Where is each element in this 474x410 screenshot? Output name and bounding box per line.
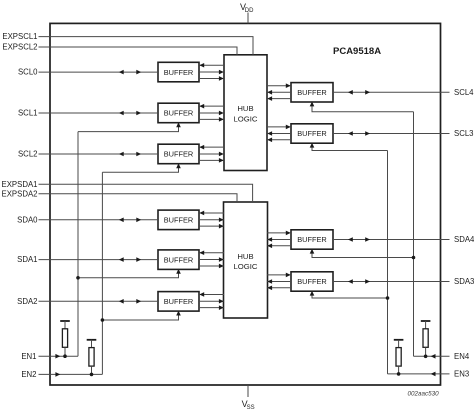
hub logic U2 (SDA) bbox=[224, 202, 268, 318]
svg-text:EN1: EN1 bbox=[21, 352, 36, 361]
buffer SDA2 (left) bbox=[158, 292, 199, 312]
bidirectional arrows on SDA1 bus bbox=[119, 257, 124, 262]
buffer SCL3 (right) bbox=[291, 124, 333, 143]
wire SCL2 buffer enable bbox=[102, 164, 178, 172]
svg-text:BUFFER: BUFFER bbox=[297, 129, 327, 138]
wire SCL1 bus bbox=[39, 112, 159, 114]
svg-text:EXPSDA1: EXPSDA1 bbox=[2, 180, 38, 189]
svg-text:002aac530: 002aac530 bbox=[408, 390, 440, 397]
svg-text:LOGIC: LOGIC bbox=[234, 115, 258, 124]
node R2-EN2 junction bbox=[90, 373, 94, 377]
wires hub U to buffer SDA3 bbox=[267, 274, 291, 276]
bidirectional arrows on SCL1 bus bbox=[119, 111, 124, 116]
svg-text:HUB: HUB bbox=[237, 252, 253, 261]
wire EN4 riser bbox=[413, 112, 415, 357]
node R4-EN3 junction bbox=[397, 372, 401, 376]
svg-text:EN4: EN4 bbox=[454, 352, 470, 361]
buffer SCL0 (left) bbox=[158, 62, 199, 82]
wire SCL1 buffer enable bbox=[78, 123, 179, 132]
power VSS tick bbox=[247, 385, 249, 397]
wire EXPSDA2 bbox=[39, 194, 238, 202]
node R1-EN1 junction bbox=[63, 354, 67, 358]
svg-text:BUFFER: BUFFER bbox=[297, 88, 327, 97]
wires hub U to buffer SDA0 bbox=[199, 212, 224, 214]
wire SDA2 buffer enable bbox=[102, 311, 178, 320]
buffer SCL4 (right) bbox=[291, 83, 333, 102]
svg-text:EN3: EN3 bbox=[454, 370, 469, 379]
svg-text:SDA2: SDA2 bbox=[17, 297, 37, 306]
wire EN3 bbox=[388, 373, 450, 375]
wire EXPSCL2 bbox=[39, 47, 238, 55]
svg-text:HUB: HUB bbox=[237, 104, 253, 113]
wires hub U to buffer SCL0 bbox=[199, 64, 224, 66]
wire EN3 riser bbox=[387, 151, 389, 374]
svg-text:EXPSDA2: EXPSDA2 bbox=[2, 189, 38, 198]
bidirectional arrows on SDA4 bus bbox=[348, 237, 353, 242]
wires hub U to buffer SDA1 bbox=[199, 252, 224, 254]
svg-text:BUFFER: BUFFER bbox=[164, 150, 194, 159]
node EN2-SDA2 junction bbox=[101, 318, 105, 322]
wire EN4 bbox=[414, 355, 450, 357]
wires hub U to buffer SCL3 bbox=[267, 126, 291, 128]
wire EN2 riser bbox=[101, 172, 103, 374]
svg-text:SDA3: SDA3 bbox=[454, 277, 474, 286]
bidirectional arrows on SCL0 bus bbox=[119, 70, 124, 75]
wire SDA1 buffer enable bbox=[78, 269, 179, 277]
wire SCL3 bus bbox=[333, 133, 450, 135]
buffer SDA1 (left) bbox=[158, 250, 199, 270]
svg-text:SCL3: SCL3 bbox=[454, 129, 474, 138]
svg-text:SCL2: SCL2 bbox=[18, 150, 38, 159]
wires hub U to buffer SDA2 bbox=[199, 293, 224, 295]
svg-text:BUFFER: BUFFER bbox=[164, 255, 194, 264]
wires hub U to buffer SCL2 bbox=[199, 146, 224, 148]
resistor R2 (EN2 pull-up) bbox=[87, 339, 97, 341]
wire SCL4 buffer enable bbox=[312, 102, 414, 112]
node EN4-SDA4 junction bbox=[412, 256, 416, 260]
buffer SCL2 (left) bbox=[158, 144, 199, 164]
buffer SCL1 (left) bbox=[158, 103, 199, 123]
resistor R1 (EN1 pull-up) bbox=[60, 320, 70, 322]
bidirectional arrows on SDA2 bus bbox=[119, 299, 124, 304]
node EN3-SDA3 junction bbox=[386, 296, 390, 300]
wire EXPSDA1 bbox=[39, 184, 253, 202]
wire SDA4 buffer enable bbox=[312, 249, 414, 257]
svg-text:BUFFER: BUFFER bbox=[164, 109, 194, 118]
outer box (PCA9518A boundary) bbox=[50, 23, 441, 385]
svg-text:SDA1: SDA1 bbox=[17, 255, 37, 264]
resistor R4 (EN3 pull-up) bbox=[394, 339, 404, 341]
node EN1-SDA1 junction bbox=[76, 276, 80, 280]
bidirectional arrows on SCL3 bus bbox=[348, 131, 353, 136]
svg-text:SDA4: SDA4 bbox=[454, 235, 474, 244]
buffer SDA4 (right) bbox=[291, 230, 333, 249]
wire EN2 bbox=[39, 373, 103, 375]
svg-text:BUFFER: BUFFER bbox=[164, 297, 194, 306]
bidirectional arrows on SDA3 bus bbox=[348, 279, 353, 284]
buffer SDA0 (left) bbox=[158, 210, 199, 230]
svg-text:PCA9518A: PCA9518A bbox=[333, 46, 381, 57]
svg-text:BUFFER: BUFFER bbox=[297, 277, 327, 286]
svg-text:SDA0: SDA0 bbox=[17, 215, 38, 224]
wire SDA0 bus bbox=[39, 219, 159, 221]
wire EXPSCL1 bbox=[39, 37, 254, 55]
svg-text:LOGIC: LOGIC bbox=[234, 262, 258, 271]
wire EN1 riser bbox=[77, 132, 79, 357]
wire SDA1 bus bbox=[39, 259, 159, 261]
svg-text:SCL1: SCL1 bbox=[18, 109, 38, 118]
buffer SDA3 (right) bbox=[291, 272, 333, 291]
wire EN1 bbox=[39, 355, 79, 357]
resistor R3 (EN4 pull-up) bbox=[421, 320, 431, 322]
svg-text:SCL0: SCL0 bbox=[18, 68, 38, 77]
wire SCL3 buffer enable bbox=[312, 143, 388, 150]
bidirectional arrows on SCL2 bus bbox=[119, 152, 124, 157]
bidirectional arrows on SDA0 bus bbox=[119, 218, 124, 223]
wire SDA3 buffer enable bbox=[312, 291, 388, 298]
wires hub U to buffer SCL1 bbox=[199, 105, 224, 107]
wire SDA2 bus bbox=[39, 300, 159, 302]
svg-text:BUFFER: BUFFER bbox=[164, 216, 194, 225]
svg-text:SS: SS bbox=[247, 405, 255, 410]
svg-text:BUFFER: BUFFER bbox=[297, 235, 327, 244]
wire SDA4 bus bbox=[333, 239, 450, 241]
wires hub U to buffer SCL4 bbox=[267, 85, 291, 87]
wires hub U to buffer SDA4 bbox=[267, 232, 291, 234]
wire SDA3 bus bbox=[333, 281, 450, 283]
svg-text:EN2: EN2 bbox=[21, 370, 36, 379]
wire SCL2 bus bbox=[39, 153, 159, 155]
bidirectional arrows on SCL4 bus bbox=[348, 90, 353, 95]
svg-text:SCL4: SCL4 bbox=[454, 88, 474, 97]
svg-text:EXPSCL2: EXPSCL2 bbox=[2, 43, 37, 52]
wire SCL4 bus bbox=[333, 91, 450, 93]
svg-text:BUFFER: BUFFER bbox=[164, 68, 194, 77]
node R3-EN4 junction bbox=[424, 355, 428, 359]
power VDD tick bbox=[247, 13, 249, 24]
svg-text:DD: DD bbox=[245, 8, 254, 14]
hub logic U1 (SCL) bbox=[224, 55, 267, 171]
wire SCL0 bus bbox=[39, 71, 159, 73]
svg-text:EXPSCL1: EXPSCL1 bbox=[2, 32, 37, 41]
